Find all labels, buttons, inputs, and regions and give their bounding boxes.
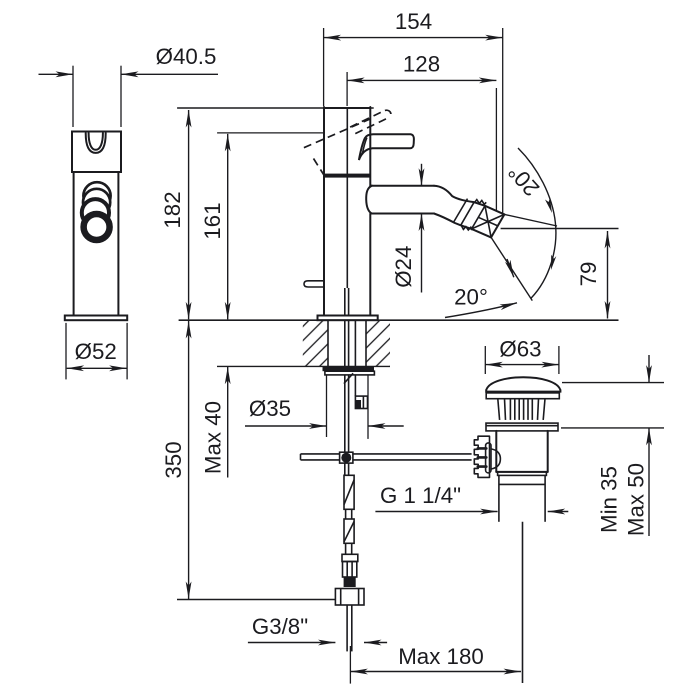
svg-text:G3/8": G3/8" — [252, 614, 308, 639]
svg-text:79: 79 — [576, 262, 601, 287]
svg-text:Ø63: Ø63 — [499, 337, 541, 362]
svg-text:161: 161 — [200, 202, 225, 239]
svg-text:350: 350 — [161, 441, 186, 478]
svg-text:20°: 20° — [454, 285, 488, 310]
svg-text:Min 35: Min 35 — [596, 466, 621, 533]
svg-text:Max 180: Max 180 — [398, 644, 484, 669]
svg-text:Ø40.5: Ø40.5 — [156, 44, 217, 69]
svg-text:Ø24: Ø24 — [391, 246, 416, 288]
svg-text:182: 182 — [160, 191, 185, 228]
svg-text:128: 128 — [403, 52, 440, 77]
svg-text:G 1 1/4": G 1 1/4" — [380, 483, 461, 508]
svg-text:Max 40: Max 40 — [200, 401, 225, 474]
svg-text:154: 154 — [395, 9, 432, 34]
svg-text:Ø52: Ø52 — [75, 339, 117, 364]
svg-text:Max 50: Max 50 — [623, 463, 648, 536]
svg-text:Ø35: Ø35 — [249, 396, 291, 421]
